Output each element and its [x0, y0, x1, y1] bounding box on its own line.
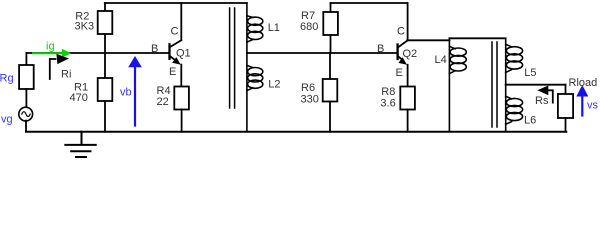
svg-text:Rg: Rg	[0, 73, 14, 85]
resistor R2	[98, 3, 113, 53]
resistor Rg	[19, 53, 34, 108]
wire top rail left section	[105, 2, 247, 4]
wire mid section	[247, 52, 397, 54]
svg-text:L5: L5	[524, 67, 536, 79]
svg-text:22: 22	[157, 96, 169, 108]
svg-text:L1: L1	[268, 22, 280, 34]
arrow vb (blue)	[128, 56, 142, 126]
svg-text:C: C	[397, 25, 405, 37]
inductor L4	[449, 38, 466, 131]
svg-text:Q2: Q2	[403, 48, 418, 60]
svg-text:E: E	[396, 67, 403, 79]
svg-text:330: 330	[301, 93, 319, 105]
svg-text:B: B	[151, 43, 158, 55]
inductor L2	[247, 53, 263, 132]
svg-text:680: 680	[300, 21, 318, 33]
resistor R7	[323, 3, 338, 53]
resistor R8	[400, 87, 415, 132]
svg-text:3.6: 3.6	[380, 97, 395, 109]
transistor Q1	[170, 3, 182, 87]
wire Q2 collector to L4	[408, 39, 450, 41]
svg-text:3K3: 3K3	[75, 21, 95, 33]
arrow vs (blue)	[576, 85, 588, 116]
wire L4 top to L5 top	[449, 37, 505, 39]
resistor Rload	[558, 85, 573, 132]
source vg	[19, 107, 33, 131]
wire base left section	[26, 52, 168, 54]
svg-text:Rs: Rs	[535, 95, 549, 107]
svg-text:Ri: Ri	[61, 68, 71, 80]
resistor R4	[174, 87, 189, 132]
svg-text:B: B	[377, 43, 384, 55]
ground	[65, 132, 95, 157]
svg-text:C: C	[171, 25, 179, 37]
svg-text:R8: R8	[381, 86, 395, 98]
transistor Q2	[398, 3, 408, 87]
svg-text:L4: L4	[435, 54, 447, 66]
resistor R6	[323, 53, 338, 132]
svg-text:R6: R6	[301, 82, 315, 94]
svg-text:E: E	[169, 66, 176, 78]
wire L5/L6 tap to Rload	[506, 84, 566, 86]
svg-text:L2: L2	[268, 78, 280, 90]
resistor R1	[98, 53, 113, 132]
inductor L6	[506, 85, 523, 132]
svg-text:Rload: Rload	[569, 77, 598, 89]
transformer T2 core	[492, 42, 497, 127]
transformer T1 core	[230, 8, 235, 108]
inductor L5	[506, 38, 523, 84]
arrow Rs pointer	[537, 86, 552, 103]
inductor L1	[247, 3, 263, 53]
wire bottom rail	[26, 131, 566, 133]
svg-text:L6: L6	[524, 114, 536, 126]
arrow ig (green)	[33, 49, 71, 58]
wire top rail right section	[331, 2, 408, 4]
svg-text:470: 470	[70, 92, 88, 104]
svg-text:Q1: Q1	[176, 48, 191, 60]
svg-text:vb: vb	[120, 87, 132, 99]
svg-text:vs: vs	[587, 99, 599, 111]
svg-text:vg: vg	[1, 114, 13, 126]
arrow Ri pointer	[50, 54, 69, 79]
svg-text:ig: ig	[46, 40, 55, 52]
